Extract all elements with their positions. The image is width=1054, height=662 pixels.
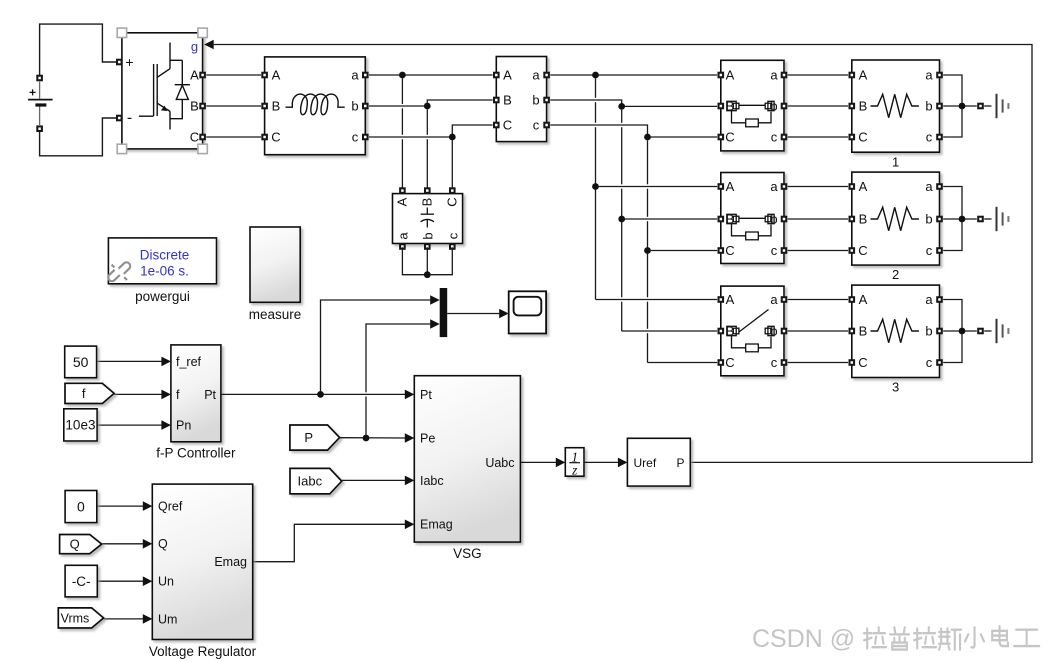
svg-text:c: c: [926, 355, 933, 370]
svg-text:C: C: [271, 130, 280, 145]
wire Pt branch to mux: [321, 300, 431, 391]
svg-text:C: C: [725, 130, 734, 145]
svg-text:A: A: [859, 179, 868, 194]
svg-text:A: A: [726, 68, 735, 83]
svg-text:2: 2: [892, 267, 899, 282]
svg-text:a: a: [770, 68, 778, 83]
three-phase RLC load block 2: [852, 172, 940, 265]
svg-text:Iabc: Iabc: [420, 474, 444, 488]
svg-text:1: 1: [892, 154, 899, 169]
wire c dropper: [647, 140, 649, 184]
breaker 2 input port A: [718, 183, 725, 190]
svg-text:c: c: [771, 243, 778, 258]
svg-text:C: C: [503, 118, 512, 133]
svg-text:A: A: [726, 292, 735, 307]
wire breaker 2 c to load: [788, 250, 848, 252]
f-P Controller block: [171, 345, 221, 442]
inverter output port C: [199, 134, 206, 141]
wire a dropper: [595, 78, 597, 98]
svg-text:B: B: [859, 324, 868, 339]
breaker 2 input port C: [718, 247, 725, 254]
arrowhead Q: [143, 539, 153, 549]
breaker 2 switch icon (closed): [727, 214, 774, 240]
junction node c tap: [449, 134, 456, 141]
junction load 2 neutral: [959, 216, 966, 223]
svg-text:B: B: [419, 198, 434, 207]
wire phase c to breaker row 2: [651, 250, 717, 252]
wire breaker 3 c to load: [788, 362, 848, 364]
battery positive terminal port: [36, 75, 43, 82]
svg-text:C: C: [858, 355, 867, 370]
wire feedback from Uref P to gate g: [214, 45, 1032, 463]
measurement input port B: [493, 97, 500, 104]
svg-text:g: g: [191, 39, 198, 54]
wire phase b to breaker row 2: [625, 218, 717, 220]
arrowhead Pe: [405, 433, 415, 443]
load 3 resistor icon: [871, 319, 919, 342]
arrowhead into gate g: [204, 40, 214, 50]
arrowhead Emag: [405, 520, 415, 530]
wire phase c step to breaker row 1: [550, 125, 717, 137]
wire b dropper: [621, 110, 623, 123]
svg-text:A: A: [272, 68, 281, 83]
wire: [647, 333, 649, 362]
load 1 input port C: [849, 134, 856, 141]
svg-text:c: c: [352, 130, 359, 145]
svg-text:B: B: [190, 99, 199, 114]
arrowhead Pn: [161, 420, 171, 430]
svg-text:A: A: [394, 197, 409, 206]
wire 50 to f_ref: [97, 360, 162, 362]
wire: [647, 302, 649, 329]
wire load 3 b to neutral: [943, 330, 977, 332]
svg-text:Pe: Pe: [420, 431, 435, 445]
arrowhead Qref: [143, 501, 153, 511]
wire: [595, 102, 597, 123]
load 2 resistor icon: [871, 207, 919, 230]
selection handle: [198, 144, 207, 153]
breaker 1 input port C: [718, 134, 725, 141]
ground 3 symbol: [997, 319, 1009, 343]
svg-text:Un: Un: [158, 575, 174, 589]
svg-text:b: b: [925, 212, 932, 227]
capacitor bottom port b: [424, 243, 431, 250]
powergui broken-link icon: [108, 262, 130, 281]
svg-text:B: B: [503, 93, 512, 108]
wire Pe branch to mux: [366, 324, 431, 435]
inverter output port A: [199, 72, 206, 79]
arrowhead into scope: [499, 309, 509, 319]
inductor input port B: [261, 103, 268, 110]
svg-text:A: A: [503, 68, 512, 83]
svg-text:a: a: [395, 232, 410, 240]
svg-text:Q: Q: [158, 537, 168, 551]
wire: [647, 189, 649, 217]
measurement input port C: [493, 122, 500, 129]
svg-text:c: c: [926, 130, 933, 145]
svg-text:C: C: [444, 197, 459, 206]
svg-text:a: a: [532, 68, 540, 83]
arrowhead into Uref: [618, 458, 628, 468]
wire Uabc to unit delay: [520, 461, 556, 463]
wire phase B inverter to inductor: [206, 105, 261, 107]
IGBT inverter block: [122, 33, 203, 149]
arrowhead into VSG Pt: [405, 390, 415, 400]
svg-text:Voltage Regulator: Voltage Regulator: [149, 644, 257, 659]
svg-text:Iabc: Iabc: [298, 474, 323, 489]
breaker 3 output port a: [781, 296, 788, 303]
inductor coil icon: [286, 94, 345, 115]
junction node a tap: [399, 72, 406, 79]
junction node b tap: [424, 103, 431, 110]
wire phase b inductor to junction: [369, 100, 493, 106]
svg-text:c: c: [771, 355, 778, 370]
wire Iabc tag to VSG: [342, 479, 406, 481]
wire Emag to VSG: [253, 524, 406, 561]
svg-text:-C-: -C-: [72, 574, 91, 589]
three-phase breaker block row 1: [721, 60, 784, 151]
wire Vrms tag to Um: [104, 618, 144, 620]
ground 1 port: [977, 103, 984, 110]
svg-text:A: A: [190, 68, 199, 83]
breaker 2 input port B: [718, 216, 725, 223]
wire breaker 3 b to load: [788, 330, 848, 332]
ground 1 symbol: [997, 94, 1009, 118]
arrowhead f: [161, 390, 171, 400]
from tag Q: [60, 535, 102, 554]
svg-text:Uref: Uref: [634, 456, 657, 470]
load 1 input port B: [849, 103, 856, 110]
svg-text:C: C: [725, 243, 734, 258]
junction load 3 neutral: [959, 328, 966, 335]
svg-text:b: b: [925, 99, 932, 114]
wire: [401, 108, 403, 135]
wire phase a to breaker row 3: [596, 299, 718, 301]
load 3 output port c: [936, 359, 943, 366]
svg-text:A: A: [726, 179, 735, 194]
svg-text:a: a: [770, 292, 778, 307]
watermark glyph si: [939, 629, 961, 650]
constant block 0: [65, 491, 97, 523]
svg-text:Pt: Pt: [420, 388, 432, 402]
wire -C- to Un: [97, 580, 143, 582]
powergui block: [108, 238, 216, 284]
junction load 1 neutral: [959, 103, 966, 110]
svg-text:c: c: [533, 118, 540, 133]
load 2 input port A: [849, 183, 856, 190]
svg-text:0: 0: [77, 499, 85, 515]
load 2 output port a: [936, 183, 943, 190]
breaker 1 output port a: [781, 72, 788, 79]
junction capacitor star point: [424, 271, 431, 278]
three-phase RLC load block 1: [852, 60, 940, 152]
watermark glyph la2: [914, 627, 936, 648]
capacitor C1 icon: [421, 208, 434, 228]
svg-text:B: B: [272, 99, 281, 114]
measurement output port c: [543, 122, 550, 129]
arrowhead into unit delay: [556, 458, 566, 468]
breaker 3 input port A: [718, 296, 725, 303]
arrowhead Un: [143, 576, 153, 586]
inductor input port C: [261, 134, 268, 141]
wire phase A inverter to inductor: [206, 74, 261, 76]
breaker 3 input port C: [718, 359, 725, 366]
load 3 input port B: [849, 328, 856, 335]
selection handle: [198, 28, 207, 37]
mux input arrow 2: [430, 319, 440, 329]
svg-text:z: z: [571, 463, 578, 478]
wire breaker 2 a to load: [788, 186, 848, 188]
svg-text:Discrete: Discrete: [140, 247, 190, 262]
svg-text:b: b: [351, 99, 358, 114]
from tag f: [65, 383, 114, 403]
capacitor bottom port c: [449, 243, 456, 250]
junction b distribution: [618, 103, 625, 110]
from tag P: [290, 425, 340, 450]
wire unit delay to Uref: [584, 461, 618, 463]
wire load 1 b to neutral: [943, 105, 977, 107]
inverter - port: [116, 115, 123, 122]
svg-text:c: c: [445, 232, 460, 239]
svg-text:B: B: [859, 212, 868, 227]
inductor output port b: [362, 103, 369, 110]
junction b row2: [618, 216, 625, 223]
load 3 output port a: [936, 296, 943, 303]
three-phase breaker block row 3: [721, 286, 784, 376]
inverter + port: [116, 59, 123, 66]
wire capacitor c to star point: [431, 247, 453, 275]
svg-text:a: a: [925, 179, 933, 194]
svg-text:a: a: [925, 292, 933, 307]
wire crossing gap: [365, 392, 367, 396]
wire: [621, 127, 623, 184]
wire P to Pe: [340, 437, 406, 439]
arrowhead Um: [143, 614, 153, 624]
wire: [595, 127, 597, 299]
three-phase breaker block row 2: [721, 173, 784, 264]
constant block 50: [65, 346, 97, 378]
breaker 2 output port c: [781, 247, 788, 254]
wire breaker 3 a to load: [788, 299, 848, 301]
load 1 input port A: [849, 72, 856, 79]
load 2 input port B: [849, 216, 856, 223]
svg-text:B: B: [859, 99, 868, 114]
scope block: [509, 291, 546, 333]
wire f tag to f: [114, 393, 162, 395]
Uref block: [627, 438, 690, 486]
svg-text:measure: measure: [249, 307, 302, 322]
svg-text:f-P Controller: f-P Controller: [156, 446, 236, 461]
measurement output port a: [543, 72, 550, 79]
svg-text:CSDN @: CSDN @: [752, 625, 855, 653]
svg-text:Qref: Qref: [158, 500, 183, 514]
wire phase a to breaker row 2: [599, 186, 717, 188]
watermark glyph la1: [864, 627, 886, 648]
wire load 1 a to neutral: [943, 75, 962, 106]
wire phase c to breaker row 3: [648, 362, 718, 364]
load 2 output port c: [936, 247, 943, 254]
battery negative terminal port: [36, 125, 43, 132]
junction a row2: [592, 183, 599, 190]
svg-text:b: b: [532, 93, 539, 108]
wire Pt to VSG: [221, 393, 405, 395]
wire phase b to breaker row 3: [622, 330, 717, 332]
svg-text:b: b: [420, 232, 435, 239]
wire to ground 2: [984, 218, 991, 220]
breaker 3 output port c: [781, 359, 788, 366]
svg-text:A: A: [859, 292, 868, 307]
inductor output port a: [362, 72, 369, 79]
svg-text:A: A: [859, 68, 868, 83]
wire breaker 1 a to load: [788, 74, 848, 76]
svg-text:a: a: [351, 68, 359, 83]
breaker 1 output port b: [781, 103, 788, 110]
svg-text:b: b: [925, 324, 932, 339]
wire Q tag to Q: [102, 543, 144, 545]
constant block -C-: [65, 565, 97, 597]
svg-text:1e-06 s.: 1e-06 s.: [140, 263, 189, 278]
svg-text:f: f: [82, 386, 86, 401]
svg-text:Uabc: Uabc: [485, 456, 514, 470]
from tag Vrms: [58, 608, 103, 628]
junction a distribution: [592, 72, 599, 79]
three-phase V-I measurement block: [496, 57, 546, 142]
svg-text:P: P: [304, 430, 313, 445]
svg-text:3: 3: [892, 380, 899, 395]
wire: [426, 139, 428, 190]
svg-text:C: C: [858, 243, 867, 258]
wire phase c inductor to junction: [369, 125, 493, 137]
wire to ground 3: [984, 330, 991, 332]
breaker 1 output port c: [781, 134, 788, 141]
load 2 input port C: [849, 247, 856, 254]
load 3 input port C: [849, 359, 856, 366]
svg-text:a: a: [925, 68, 933, 83]
wire tap c down to capacitor C: [451, 140, 453, 190]
three-phase inductor block L1: [265, 57, 366, 155]
wire tap b down to capacitor B: [426, 109, 428, 135]
unit delay block: [565, 448, 584, 477]
wire breaker 1 c to load: [788, 136, 848, 138]
svg-text:f: f: [176, 388, 180, 402]
load 1 resistor icon: [871, 94, 919, 117]
wire: [647, 221, 649, 297]
watermark glyph pu: [890, 627, 909, 649]
from tag Iabc: [290, 468, 342, 494]
Voltage Regulator block: [152, 484, 252, 639]
wire phase C inverter to inductor: [206, 136, 261, 138]
svg-text:C: C: [190, 130, 199, 145]
arrowhead Iabc: [405, 476, 415, 486]
wire battery+ to inverter + input: [40, 24, 116, 75]
svg-text:Um: Um: [158, 612, 177, 626]
svg-text:c: c: [926, 243, 933, 258]
wire tap a down to capacitor A: [401, 78, 403, 104]
breaker 1 input port B: [718, 103, 725, 110]
svg-text:+: +: [125, 54, 133, 70]
ground 2 symbol: [997, 207, 1009, 231]
watermark glyph xiao: [965, 627, 984, 647]
breaker 3 input port B: [718, 328, 725, 335]
junction c distribution: [644, 134, 651, 141]
svg-text:Pt: Pt: [204, 388, 216, 402]
wire 0 to Qref: [97, 505, 143, 507]
selection handle: [117, 144, 126, 153]
wire battery- to inverter - input: [40, 118, 116, 156]
wire load 2 a to neutral: [943, 187, 962, 220]
svg-text:c: c: [771, 130, 778, 145]
VSG block: [414, 376, 520, 542]
inverter output port B: [199, 103, 206, 110]
capacitor bottom port a: [399, 243, 406, 250]
wire 10e3 to Pn: [97, 424, 162, 426]
arrowhead f_ref: [161, 357, 171, 367]
wire breaker 2 b to load: [788, 218, 848, 220]
breaker 3 output port b: [781, 328, 788, 335]
breaker 1 switch icon (closed): [727, 101, 774, 127]
svg-text:Vrms: Vrms: [61, 611, 90, 625]
ground 2 port: [977, 216, 984, 223]
wire phase b step to breaker row 1: [550, 100, 717, 106]
svg-text:Emag: Emag: [420, 518, 453, 532]
capacitor top port B: [424, 187, 431, 194]
wire load 2 c to neutral: [943, 219, 962, 251]
junction Pe branch: [363, 435, 370, 442]
load 1 output port a: [936, 72, 943, 79]
inductor output port c: [362, 134, 369, 141]
svg-text:powergui: powergui: [135, 289, 190, 304]
svg-text:Q: Q: [70, 537, 80, 552]
wire phase a to breaker row 1: [550, 74, 717, 76]
wire load 3 a to neutral: [943, 300, 962, 332]
watermark glyph dian: [992, 626, 1008, 646]
breaker 1 input port A: [718, 72, 725, 79]
inductor input port A: [261, 72, 268, 79]
watermark glyph gong: [1014, 630, 1039, 646]
three-phase RLC load block 3: [852, 285, 940, 377]
wire: [621, 189, 623, 298]
wire: [401, 139, 403, 190]
breaker 2 output port b: [781, 216, 788, 223]
ground 3 port: [977, 328, 984, 335]
junction c row2: [644, 247, 651, 254]
unit delay fraction bar: [569, 462, 580, 464]
breaker 3 switch icon (open): [727, 310, 774, 352]
svg-text:C: C: [725, 355, 734, 370]
battery E1 symbol: [39, 82, 41, 125]
wire to ground 1: [984, 105, 991, 107]
capacitor top port C: [449, 187, 456, 194]
svg-text:Emag: Emag: [214, 555, 247, 569]
wire capacitor b to star point: [426, 247, 428, 275]
wire capacitor a to star point: [402, 247, 424, 275]
svg-text:Pn: Pn: [176, 419, 191, 433]
svg-text:a: a: [770, 179, 778, 194]
wire breaker 1 b to load: [788, 105, 848, 107]
mux block: [440, 288, 448, 337]
scope screen icon: [514, 297, 542, 316]
measure subsystem block: [250, 227, 300, 302]
load 1 output port c: [936, 134, 943, 141]
wire load 3 c to neutral: [943, 331, 962, 363]
svg-text:P: P: [676, 456, 684, 470]
wire mux to scope: [447, 313, 500, 315]
measurement output port b: [543, 97, 550, 104]
IGBT transistor icon: [139, 43, 190, 130]
selection handle: [117, 28, 126, 37]
svg-text:f_ref: f_ref: [176, 355, 202, 369]
wire load 2 b to neutral: [943, 218, 977, 220]
